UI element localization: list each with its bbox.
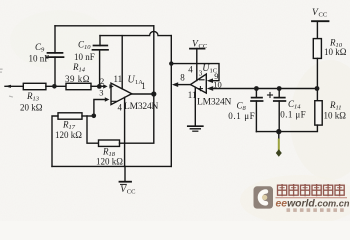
node dot C10/pin2: [97, 84, 102, 89]
svg-text:2: 2: [100, 76, 104, 86]
wire R11 top: [316, 89, 318, 101]
resistor R13: [23, 83, 46, 89]
power Vcc terminal mid: [190, 48, 205, 50]
wire bottom rail: [52, 165, 171, 167]
wire top feedback: [55, 25, 154, 27]
wire R17 right to node: [82, 115, 94, 117]
wire R14 to pin2: [91, 85, 105, 87]
svg-text:10 nF: 10 nF: [29, 53, 50, 63]
svg-text:8: 8: [180, 73, 185, 83]
arrowhead output stub: [276, 149, 282, 156]
capacitor C10: [99, 36, 101, 46]
node dot C8 top: [254, 86, 259, 91]
wire pin4 U1C: [196, 49, 198, 81]
wire pin11 U1C: [194, 87, 196, 126]
wire node to R18 left: [87, 116, 99, 143]
svg-text:10 kΩ: 10 kΩ: [324, 111, 347, 121]
watermark logo eeworld: [254, 186, 274, 208]
svg-text:LM324N: LM324N: [124, 102, 159, 112]
arrowhead pin10: [207, 86, 213, 91]
node dot output bottom: [276, 129, 281, 134]
wire pin10: [213, 88, 317, 90]
arrowhead pin8: [172, 82, 178, 87]
watermark text 电子工程世界 (drawn glyphs): [278, 184, 345, 196]
wire pin9 feedback loop: [171, 64, 219, 81]
resistor R10: [313, 39, 321, 59]
watermark rule: [276, 197, 348, 199]
svg-text:CC: CC: [127, 188, 136, 195]
node dot pin3/R17: [92, 114, 97, 119]
svg-text:0.1 μF: 0.1 μF: [228, 111, 255, 121]
wire R17 left: [52, 116, 58, 166]
wire R10 bottom: [316, 58, 318, 88]
svg-text:1C: 1C: [210, 68, 218, 75]
svg-text:eeworld.com.cn: eeworld.com.cn: [276, 198, 350, 209]
wire output pin1: [132, 93, 154, 95]
op-amp U1A: [111, 83, 132, 105]
wire C10 top with hop over x154: [100, 31, 171, 35]
svg-text:LM324N: LM324N: [197, 98, 232, 108]
minus sign U1A input: [112, 100, 116, 102]
resistor R18: [99, 140, 120, 146]
wire buffer net vertical: [170, 36, 172, 167]
power Vcc terminal top right: [312, 20, 329, 22]
wire pin11 U1A: [121, 36, 123, 89]
plus sign U1C input: [198, 88, 202, 90]
power -Vcc terminal bottom: [124, 166, 126, 181]
capacitor C9: [54, 26, 56, 53]
svg-text:11: 11: [114, 74, 123, 84]
svg-text:120 kΩ: 120 kΩ: [96, 157, 123, 167]
ground: [188, 125, 203, 127]
wire input: [5, 85, 23, 87]
arrowhead pin2 b: [109, 84, 113, 88]
resistor R17: [58, 113, 82, 119]
wire pin3 riser: [94, 100, 105, 116]
node dot R10/R11: [315, 86, 320, 91]
arrowhead pin3: [105, 97, 110, 101]
capacitor C14: [278, 89, 280, 98]
wire pin4 U1A down: [124, 97, 126, 166]
svg-text:10: 10: [213, 80, 222, 90]
svg-text:4: 4: [188, 64, 193, 74]
svg-text:1A: 1A: [135, 79, 143, 86]
svg-text:0.1 μF: 0.1 μF: [280, 109, 306, 119]
svg-text:10 nF: 10 nF: [74, 52, 95, 62]
wire R11 bottom: [256, 125, 317, 132]
edge artifacts: [0, 69, 13, 98]
watermark small slogan: [287, 208, 344, 212]
arrowhead input terminal: [5, 85, 12, 88]
svg-text:CC: CC: [199, 43, 208, 50]
svg-text:39 kΩ: 39 kΩ: [65, 74, 90, 84]
wire output stub: [278, 132, 280, 140]
node dot buffer net: [169, 61, 173, 65]
wire R18 right to output node: [120, 94, 154, 143]
svg-text:4: 4: [118, 103, 123, 113]
resistor R11: [315, 101, 322, 125]
arrowhead pin2 a: [103, 84, 107, 88]
wire R13 to R14: [46, 85, 66, 87]
node dot output U1A: [151, 91, 156, 96]
node dot C14 top: [277, 86, 282, 91]
svg-text:11: 11: [188, 90, 197, 100]
svg-text:CC: CC: [319, 12, 328, 19]
resistor R14: [66, 83, 91, 89]
node A dot C9/R13: [52, 84, 57, 89]
svg-text:20 kΩ: 20 kΩ: [20, 103, 43, 113]
svg-text:10 kΩ: 10 kΩ: [324, 47, 347, 57]
overbar on bottom Vcc: [120, 183, 127, 185]
arrowhead pin9: [207, 78, 213, 83]
capacitor C8: [255, 89, 257, 98]
op-amp U1C: [191, 74, 207, 93]
wire pin8 output: [177, 84, 191, 86]
svg-text:120 kΩ: 120 kΩ: [55, 130, 82, 140]
svg-text:3: 3: [99, 88, 103, 98]
minus sign U1C input: [200, 79, 205, 81]
plus sign C14: [268, 94, 273, 96]
wire feedback vertical to output node: [153, 26, 155, 94]
